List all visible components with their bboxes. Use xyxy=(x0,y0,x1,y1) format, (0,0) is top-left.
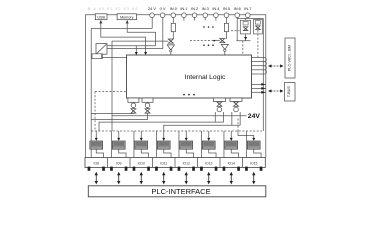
svg-text:IO10: IO10 xyxy=(138,161,145,165)
svg-text:IO11: IO11 xyxy=(160,161,167,165)
svg-text:Internal Logic: Internal Logic xyxy=(185,74,226,81)
svg-text:IO8: IO8 xyxy=(94,161,100,165)
svg-text:PLC-INTERFACE: PLC-INTERFACE xyxy=(151,187,210,196)
svg-text:PLC-V8C/...BM: PLC-V8C/...BM xyxy=(287,45,291,71)
svg-text:IN.3: IN.3 xyxy=(202,6,209,11)
svg-text:T-BUS: T-BUS xyxy=(287,86,291,98)
svg-text:Memory: Memory xyxy=(120,15,133,19)
svg-text:0 V: 0 V xyxy=(160,6,166,11)
svg-text:IN.4: IN.4 xyxy=(212,6,220,11)
svg-text:IN.6: IN.6 xyxy=(234,6,241,11)
svg-text:IO13: IO13 xyxy=(205,161,212,165)
svg-text:IN.5: IN.5 xyxy=(223,6,230,11)
svg-text:IN.0: IN.0 xyxy=(170,6,178,11)
svg-text:IN.1: IN.1 xyxy=(180,6,187,11)
svg-text:IO14: IO14 xyxy=(228,161,235,165)
svg-text:USB: USB xyxy=(97,15,105,19)
svg-text:IN.7: IN.7 xyxy=(244,6,251,11)
svg-text:IO9: IO9 xyxy=(116,161,122,165)
svg-text:IO15: IO15 xyxy=(250,161,257,165)
svg-text:24V: 24V xyxy=(248,113,261,120)
svg-text:B A 50 51 52 53 54: B A 50 51 52 53 54 xyxy=(88,7,138,11)
svg-text:IN.2: IN.2 xyxy=(191,6,198,11)
svg-text:24 V: 24 V xyxy=(148,6,156,11)
svg-text:IO12: IO12 xyxy=(183,161,190,165)
